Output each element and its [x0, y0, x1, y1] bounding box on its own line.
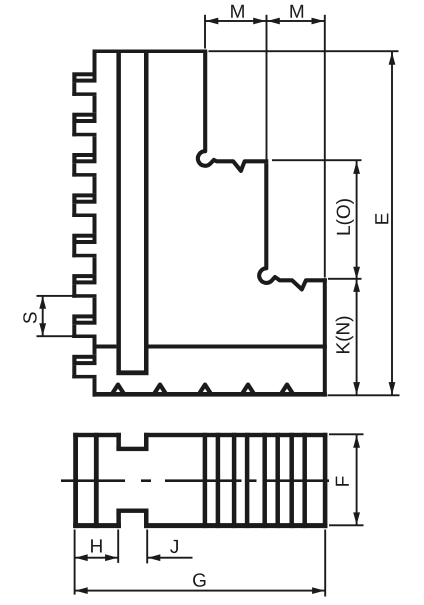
dimension M extension line middle: [266, 15, 268, 160]
serration groove line 1: [203, 433, 208, 528]
step 2 face, relief hook, serrated step surface with break mark: [259, 163, 327, 289]
dimension line M (both segments): [205, 20, 325, 22]
extension line right edge for G: [324, 530, 326, 597]
slot right line: [144, 52, 149, 372]
serration groove line 4: [245, 433, 250, 528]
internal horizontal line (left of slot): [93, 345, 117, 349]
bottom edge serration peak 2: [153, 385, 167, 396]
label E: [375, 213, 388, 223]
serration groove line 8: [302, 433, 307, 528]
dimension line H: [75, 557, 119, 559]
dimension line E: [391, 52, 393, 395]
top slot: left wall, right wall, bottom: [116, 433, 148, 451]
serration tooth 3: [72, 153, 96, 193]
bottom slot: left wall, right wall, top: [116, 509, 148, 529]
dimension line F: [356, 435, 358, 525]
bottom edge serration peak 1: [111, 385, 125, 396]
serration tooth 5: [72, 234, 96, 274]
dimension line L(O): [356, 161, 358, 279]
serration tooth 6: [72, 274, 96, 314]
bottom edge serration peak 5: [280, 385, 294, 396]
serration groove line 7: [289, 433, 294, 528]
slot bottom cap: [116, 370, 148, 375]
extension line from step 1 surface for L(O): [272, 159, 362, 161]
slot left line: [116, 52, 121, 372]
extension line slot-left for H: [117, 530, 119, 563]
dimension M extension line right: [324, 15, 326, 278]
extension line from step 2 surface for L(O)/K(N): [328, 278, 362, 280]
label S: [23, 312, 36, 323]
serration groove line 6: [275, 433, 280, 528]
internal horizontal line (right of slot): [149, 345, 327, 349]
centerline (dash-dot): [61, 479, 329, 482]
bottom edge: [93, 392, 327, 397]
label H: [91, 539, 102, 552]
label L(O): [336, 199, 354, 234]
serration tooth 8: [72, 355, 96, 397]
extension line upper for S: [37, 295, 75, 297]
top edge (left of slot): [73, 433, 121, 437]
top edge: [93, 50, 208, 54]
bottom edge serration peak 4: [241, 385, 255, 396]
dimension M extension line left: [204, 15, 206, 49]
serration groove line 2: [216, 433, 221, 528]
right body edge: [323, 278, 327, 396]
bottom edge (right of slot): [144, 523, 327, 528]
label J: [170, 540, 178, 553]
top edge (right of slot): [144, 433, 327, 437]
serration tooth 4: [72, 193, 96, 233]
step 1 face, relief hook, serrated step surface with break mark: [198, 51, 268, 171]
extension line from lower-view top edge for F: [329, 433, 364, 435]
extension line from bottom edge for E and K(N): [328, 394, 400, 396]
left body edge above serrations: [93, 50, 97, 74]
upper view: jaw side profile: [93, 50, 208, 74]
serration tooth 7: [72, 314, 96, 354]
dimension line K(N): [356, 279, 358, 394]
label M (second): [290, 5, 303, 18]
inner vertical line: [94, 433, 99, 528]
extension line slot-right for J: [146, 530, 148, 564]
bottom edge serration peak 3: [198, 385, 212, 396]
serration groove line 3: [232, 433, 237, 528]
label M (first): [231, 5, 244, 18]
label G: [193, 573, 205, 586]
extension line from top edge for E: [209, 50, 399, 52]
dimension line S: [42, 297, 44, 336]
label K(N): [336, 317, 354, 353]
right edge: [323, 433, 328, 528]
serration tooth 1: [72, 72, 96, 112]
label F: [336, 476, 349, 485]
lower view: jaw bottom profile: [73, 433, 327, 528]
bottom edge (left of slot): [73, 523, 121, 528]
extension line from lower-view bottom edge for F: [329, 524, 364, 526]
extension line lower for S: [37, 335, 75, 337]
dimension line G: [75, 590, 326, 592]
serration tooth 2: [72, 113, 96, 153]
serration groove line 5: [262, 433, 267, 528]
dimension line J: [147, 557, 192, 559]
left edge: [73, 433, 78, 528]
extension line left edge for H and G: [74, 530, 76, 595]
